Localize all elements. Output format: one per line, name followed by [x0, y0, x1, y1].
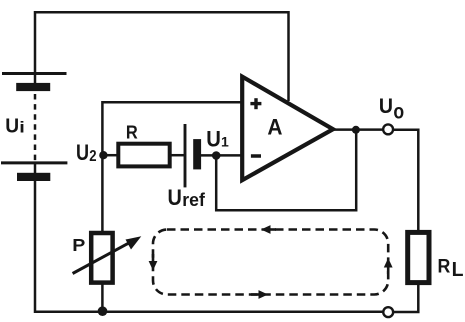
svg-text:U: U	[206, 127, 221, 152]
svg-text:R: R	[438, 255, 451, 277]
svg-text:U: U	[168, 185, 182, 210]
svg-text:ref: ref	[182, 190, 205, 210]
svg-text:A: A	[267, 115, 282, 140]
svg-text:U: U	[76, 141, 89, 165]
svg-text:2: 2	[89, 148, 96, 165]
svg-text:U: U	[379, 96, 393, 119]
svg-text:R: R	[126, 121, 138, 142]
svg-text:P: P	[72, 235, 85, 255]
svg-text:U: U	[5, 115, 19, 137]
svg-text:1: 1	[221, 134, 229, 150]
svg-text:i: i	[19, 119, 25, 137]
svg-text:L: L	[452, 259, 464, 281]
svg-text:o: o	[393, 100, 404, 124]
